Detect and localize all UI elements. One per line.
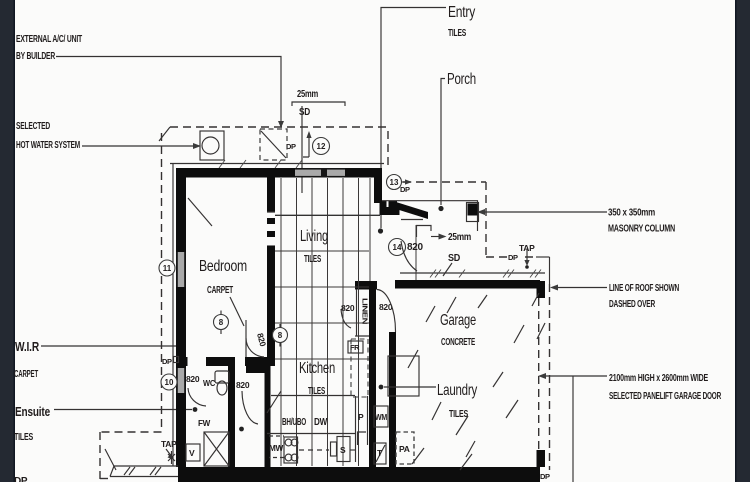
svg-text:DW: DW [314,417,328,428]
svg-text:11: 11 [163,264,172,273]
svg-text:DP: DP [400,185,410,194]
svg-text:Garage: Garage [440,312,476,329]
svg-text:WM: WM [375,412,387,422]
svg-text:BY BUILDER: BY BUILDER [16,51,56,62]
svg-text:W.I.R: W.I.R [15,339,40,354]
svg-text:Porch: Porch [447,71,476,88]
svg-text:Kitchen: Kitchen [299,360,335,377]
svg-text:SD: SD [448,253,460,264]
svg-text:DP: DP [540,472,550,481]
svg-text:8: 8 [278,331,283,340]
svg-text:TILES: TILES [14,432,33,443]
svg-text:CARPET: CARPET [14,369,38,380]
svg-text:P: P [358,412,364,422]
svg-text:LINE OF ROOF SHOWN: LINE OF ROOF SHOWN [609,283,679,294]
svg-text:Ensuite: Ensuite [15,404,50,419]
svg-text:12: 12 [317,142,326,151]
svg-text:8: 8 [219,318,224,327]
svg-text:Living: Living [300,228,328,245]
svg-text:BH/UBO: BH/UBO [282,417,306,428]
svg-text:TILES: TILES [449,409,468,420]
svg-text:TILES: TILES [448,28,466,39]
svg-text:CONCRETE: CONCRETE [441,337,475,348]
svg-text:FR: FR [350,343,360,352]
svg-text:Bedroom: Bedroom [199,258,247,275]
svg-text:V: V [189,448,195,458]
svg-text:13: 13 [390,178,399,187]
svg-text:FW: FW [198,418,211,428]
svg-text:WC: WC [203,378,215,388]
svg-text:CARPET: CARPET [207,285,233,296]
svg-text:10: 10 [165,378,174,387]
svg-text:LINEN: LINEN [361,298,370,324]
svg-text:25mm: 25mm [448,232,471,243]
svg-text:TILES: TILES [304,254,321,265]
svg-text:DP: DP [162,357,172,366]
svg-text:MW: MW [269,443,284,453]
svg-text:S: S [340,445,346,455]
svg-text:EXTERNAL A/C/ UNIT: EXTERNAL A/C/ UNIT [16,34,82,45]
svg-text:TAP: TAP [161,439,177,449]
svg-text:SELECTED: SELECTED [16,121,50,132]
svg-text:25mm: 25mm [297,89,318,100]
svg-text:HOT WATER SYSTEM: HOT WATER SYSTEM [16,140,80,151]
svg-text:MASONRY COLUMN: MASONRY COLUMN [608,224,675,235]
svg-text:DP: DP [14,476,28,482]
svg-text:2100mm HIGH x 2600mm WIDE: 2100mm HIGH x 2600mm WIDE [609,373,708,384]
svg-text:DASHED OVER: DASHED OVER [609,299,656,310]
svg-text:Laundry: Laundry [437,382,477,399]
svg-text:820: 820 [186,374,200,384]
svg-text:14: 14 [393,243,402,252]
svg-text:820: 820 [236,380,250,390]
svg-text:SD: SD [299,107,310,118]
svg-text:350 x 350mm: 350 x 350mm [608,208,655,219]
svg-text:Entry: Entry [448,4,475,21]
svg-text:820: 820 [407,242,424,253]
svg-text:DP: DP [508,253,518,262]
svg-text:SELECTED PANELIFT GARAGE DOOR: SELECTED PANELIFT GARAGE DOOR [609,391,722,402]
svg-text:PA: PA [399,444,410,454]
